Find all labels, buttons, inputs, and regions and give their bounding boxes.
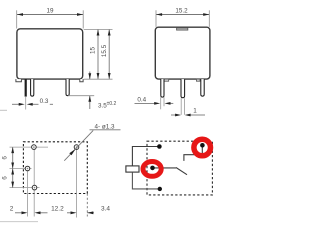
centerline TL-BL vertical — [33, 149, 35, 216]
node NO — [200, 143, 205, 148]
red highlight NO — [194, 139, 211, 156]
dimension 1 — [181, 98, 184, 115]
wire common — [153, 167, 177, 169]
wire coil top to node — [132, 147, 159, 166]
relay body side view — [155, 27, 210, 79]
svg-text:15: 15 — [90, 47, 97, 55]
pin 3 front (outline) — [66, 79, 69, 96]
extension TR vertical — [76, 150, 78, 218]
relay outline dashed — [147, 141, 212, 195]
dimension 15 / 15.5 extension lines — [84, 29, 113, 79]
node coil top — [157, 144, 162, 149]
pin 2 front (outline) — [31, 79, 34, 96]
centerline hole ML horizontal — [10, 168, 32, 170]
leader 4-o1.3 — [64, 130, 120, 161]
svg-text:4- ø1.3: 4- ø1.3 — [95, 123, 115, 130]
pin 5 side (outline) — [181, 79, 185, 98]
foot tab side-right — [196, 79, 200, 81]
hole top-left — [32, 145, 37, 150]
coil — [126, 166, 139, 172]
dimension 15 arrows — [97, 30, 100, 36]
dimension 6 upper — [12, 147, 14, 168]
foot tab bottom-left — [16, 79, 22, 82]
svg-text:3.4: 3.4 — [101, 206, 110, 213]
pin 1 front (solid) — [25, 79, 27, 97]
hole middle-left — [25, 166, 30, 171]
foot tab side-left — [162, 79, 168, 81]
hole bottom-left — [32, 185, 37, 190]
svg-text:0.4: 0.4 — [137, 97, 146, 104]
svg-text:2: 2 — [10, 206, 14, 213]
switch arm — [176, 168, 187, 175]
wire NO contact — [184, 147, 202, 161]
node coil bottom — [158, 187, 162, 191]
svg-text:1: 1 — [193, 108, 197, 115]
svg-text:15.2: 15.2 — [175, 7, 188, 14]
wire coil bottom to node — [132, 172, 159, 189]
pcb outline dashed — [23, 142, 87, 194]
pin 6 side (outline) — [201, 79, 204, 96]
centerline hole BL horizontal — [10, 187, 40, 189]
red highlight common — [143, 162, 161, 177]
relay body front view — [17, 29, 83, 79]
svg-text:±0.2: ±0.2 — [107, 101, 117, 107]
svg-text:15.5: 15.5 — [101, 44, 108, 57]
dimension 15.5 arrows — [108, 30, 111, 36]
svg-text:12.2: 12.2 — [51, 206, 64, 213]
pin 4 side (outline) — [161, 79, 164, 97]
svg-text:6: 6 — [2, 156, 9, 160]
dimension 3.5 — [68, 95, 94, 97]
dimension 15.2 — [156, 10, 209, 27]
svg-text:0.3: 0.3 — [40, 98, 49, 105]
node common — [150, 166, 155, 171]
dimension 0.4 — [161, 97, 164, 109]
dimension 0.3 — [25, 97, 27, 110]
hole top-right — [74, 145, 79, 150]
scan artifact left edge — [0, 109, 7, 111]
dimension 19 — [17, 10, 84, 28]
centerline hole TL horizontal — [10, 146, 49, 148]
extension ML vertical — [27, 171, 29, 217]
dimension 6 lower — [12, 169, 14, 188]
svg-text:6: 6 — [2, 176, 9, 180]
extension of right dashed edge — [86, 194, 88, 217]
svg-text:19: 19 — [46, 7, 54, 14]
scan artifact bottom-left — [0, 221, 38, 223]
vent notch — [177, 28, 188, 30]
foot tab bottom-right — [80, 79, 83, 82]
